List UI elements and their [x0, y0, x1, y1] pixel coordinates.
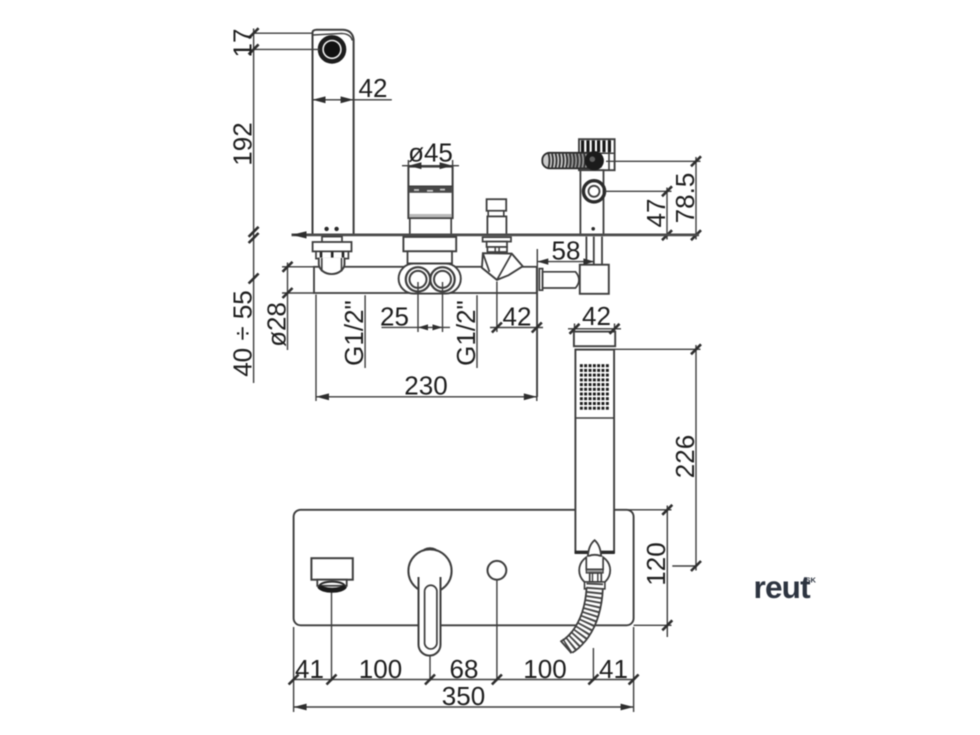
single lever handle (plan view) [408, 548, 451, 656]
svg-text:ø28: ø28 [261, 302, 291, 347]
spout (plan view) [311, 558, 352, 591]
hand shower head cap [574, 332, 615, 347]
svg-text:G1/2": G1/2" [339, 300, 369, 366]
svg-text:reut: reut [754, 569, 812, 605]
two index dots on spout base [324, 227, 328, 231]
spout shank flange below deck [313, 237, 352, 259]
hose swivel nut circle [579, 555, 610, 586]
spout aerator (end view) [320, 38, 344, 62]
dimension 17 (top to aerator axis) [227, 28, 319, 383]
dimension 120 (plate depth) [615, 505, 673, 637]
vertical spout body [313, 30, 354, 235]
svg-text:192: 192 [227, 122, 257, 165]
spout threaded tail (U collar) [319, 258, 345, 274]
shower holder handle (knurled lever) [542, 151, 604, 170]
svg-text:230: 230 [404, 371, 447, 401]
svg-text:42: 42 [503, 302, 532, 332]
dimension row 41/100/68/100/41 [289, 627, 639, 712]
dimension 42 (spout width) [313, 73, 392, 103]
diverter cone below deck [482, 237, 523, 280]
dimension 40-55 (deck thickness range) [227, 233, 258, 377]
deck mounting surface line [292, 231, 700, 238]
knurled nut stripes on holder top [579, 140, 615, 153]
svg-text:68: 68 [450, 654, 479, 684]
dimension 78.5 (handle height) [606, 156, 701, 240]
dimension 25 (inlet pitch) [380, 282, 450, 332]
leader line from handle to 68 dimension [429, 657, 431, 682]
dimension 226 (hand shower length) [615, 344, 702, 571]
label G1/2" right with leader [451, 295, 481, 368]
leader line from spout to 41 dimension [331, 593, 333, 682]
cartridge shank below deck [403, 237, 456, 264]
shower holder body above deck [579, 139, 615, 235]
hand shower joint lines [575, 346, 614, 349]
leader line from diverter knob [496, 580, 498, 681]
hand shower hose elbow below deck [539, 269, 579, 291]
svg-text:350: 350 [442, 681, 485, 711]
dimension phi28 (tube diameter) [261, 262, 314, 350]
svg-text:41: 41 [295, 654, 324, 684]
dimension phi45 (handle diameter) [402, 138, 459, 171]
svg-text:47: 47 [641, 199, 671, 228]
mounting plate (plan view, 350x120) [294, 510, 634, 626]
diverter knob above deck [487, 199, 507, 235]
reut brand logo [754, 569, 817, 605]
svg-text:41: 41 [599, 654, 628, 684]
svg-text:G1/2": G1/2" [451, 300, 481, 366]
svg-text:25: 25 [380, 302, 409, 332]
svg-text:100: 100 [359, 654, 402, 684]
dimension 230 (inlet span) [316, 290, 537, 401]
dimension 47 (ring height) [605, 186, 672, 240]
svg-text:ø45: ø45 [408, 138, 453, 168]
svg-text:17: 17 [227, 29, 257, 58]
dimension 192 (spout height over deck) [227, 122, 258, 236]
small dot on holder base [591, 227, 595, 231]
svg-text:78.5: 78.5 [670, 173, 700, 224]
mixer handle (45mm) above deck [408, 167, 452, 235]
svg-text:40 ÷ 55: 40 ÷ 55 [227, 290, 257, 377]
svg-text:100: 100 [523, 654, 566, 684]
right inlet circle G1/2 [430, 267, 454, 291]
svg-text:SK: SK [806, 576, 817, 585]
dimension 58 (body end to holder) [537, 235, 594, 397]
svg-text:58: 58 [552, 235, 581, 265]
dimension 42 (hand shower width) [568, 301, 621, 334]
hand shower holder bracket below deck [580, 237, 609, 294]
holder ring (hand shower socket) [583, 181, 604, 202]
hose nut body [585, 557, 605, 589]
diverter knob (plan view) [488, 561, 507, 580]
svg-text:226: 226 [670, 435, 700, 478]
svg-text:120: 120 [641, 542, 671, 585]
dimension 350 (overall width) [294, 681, 634, 711]
label G1/2" left with leader [339, 295, 369, 368]
dimension 42 (diverter) [490, 282, 543, 333]
svg-text:42: 42 [582, 301, 611, 331]
hand shower body [575, 350, 615, 553]
below-deck body tube [314, 267, 537, 293]
flexible hose (ribbed, curving to lower left) [561, 583, 603, 653]
spray face grid [580, 364, 609, 410]
left inlet circle G1/2 [399, 264, 461, 294]
hose connection cone inside handle [588, 540, 601, 557]
svg-text:42: 42 [359, 73, 388, 103]
